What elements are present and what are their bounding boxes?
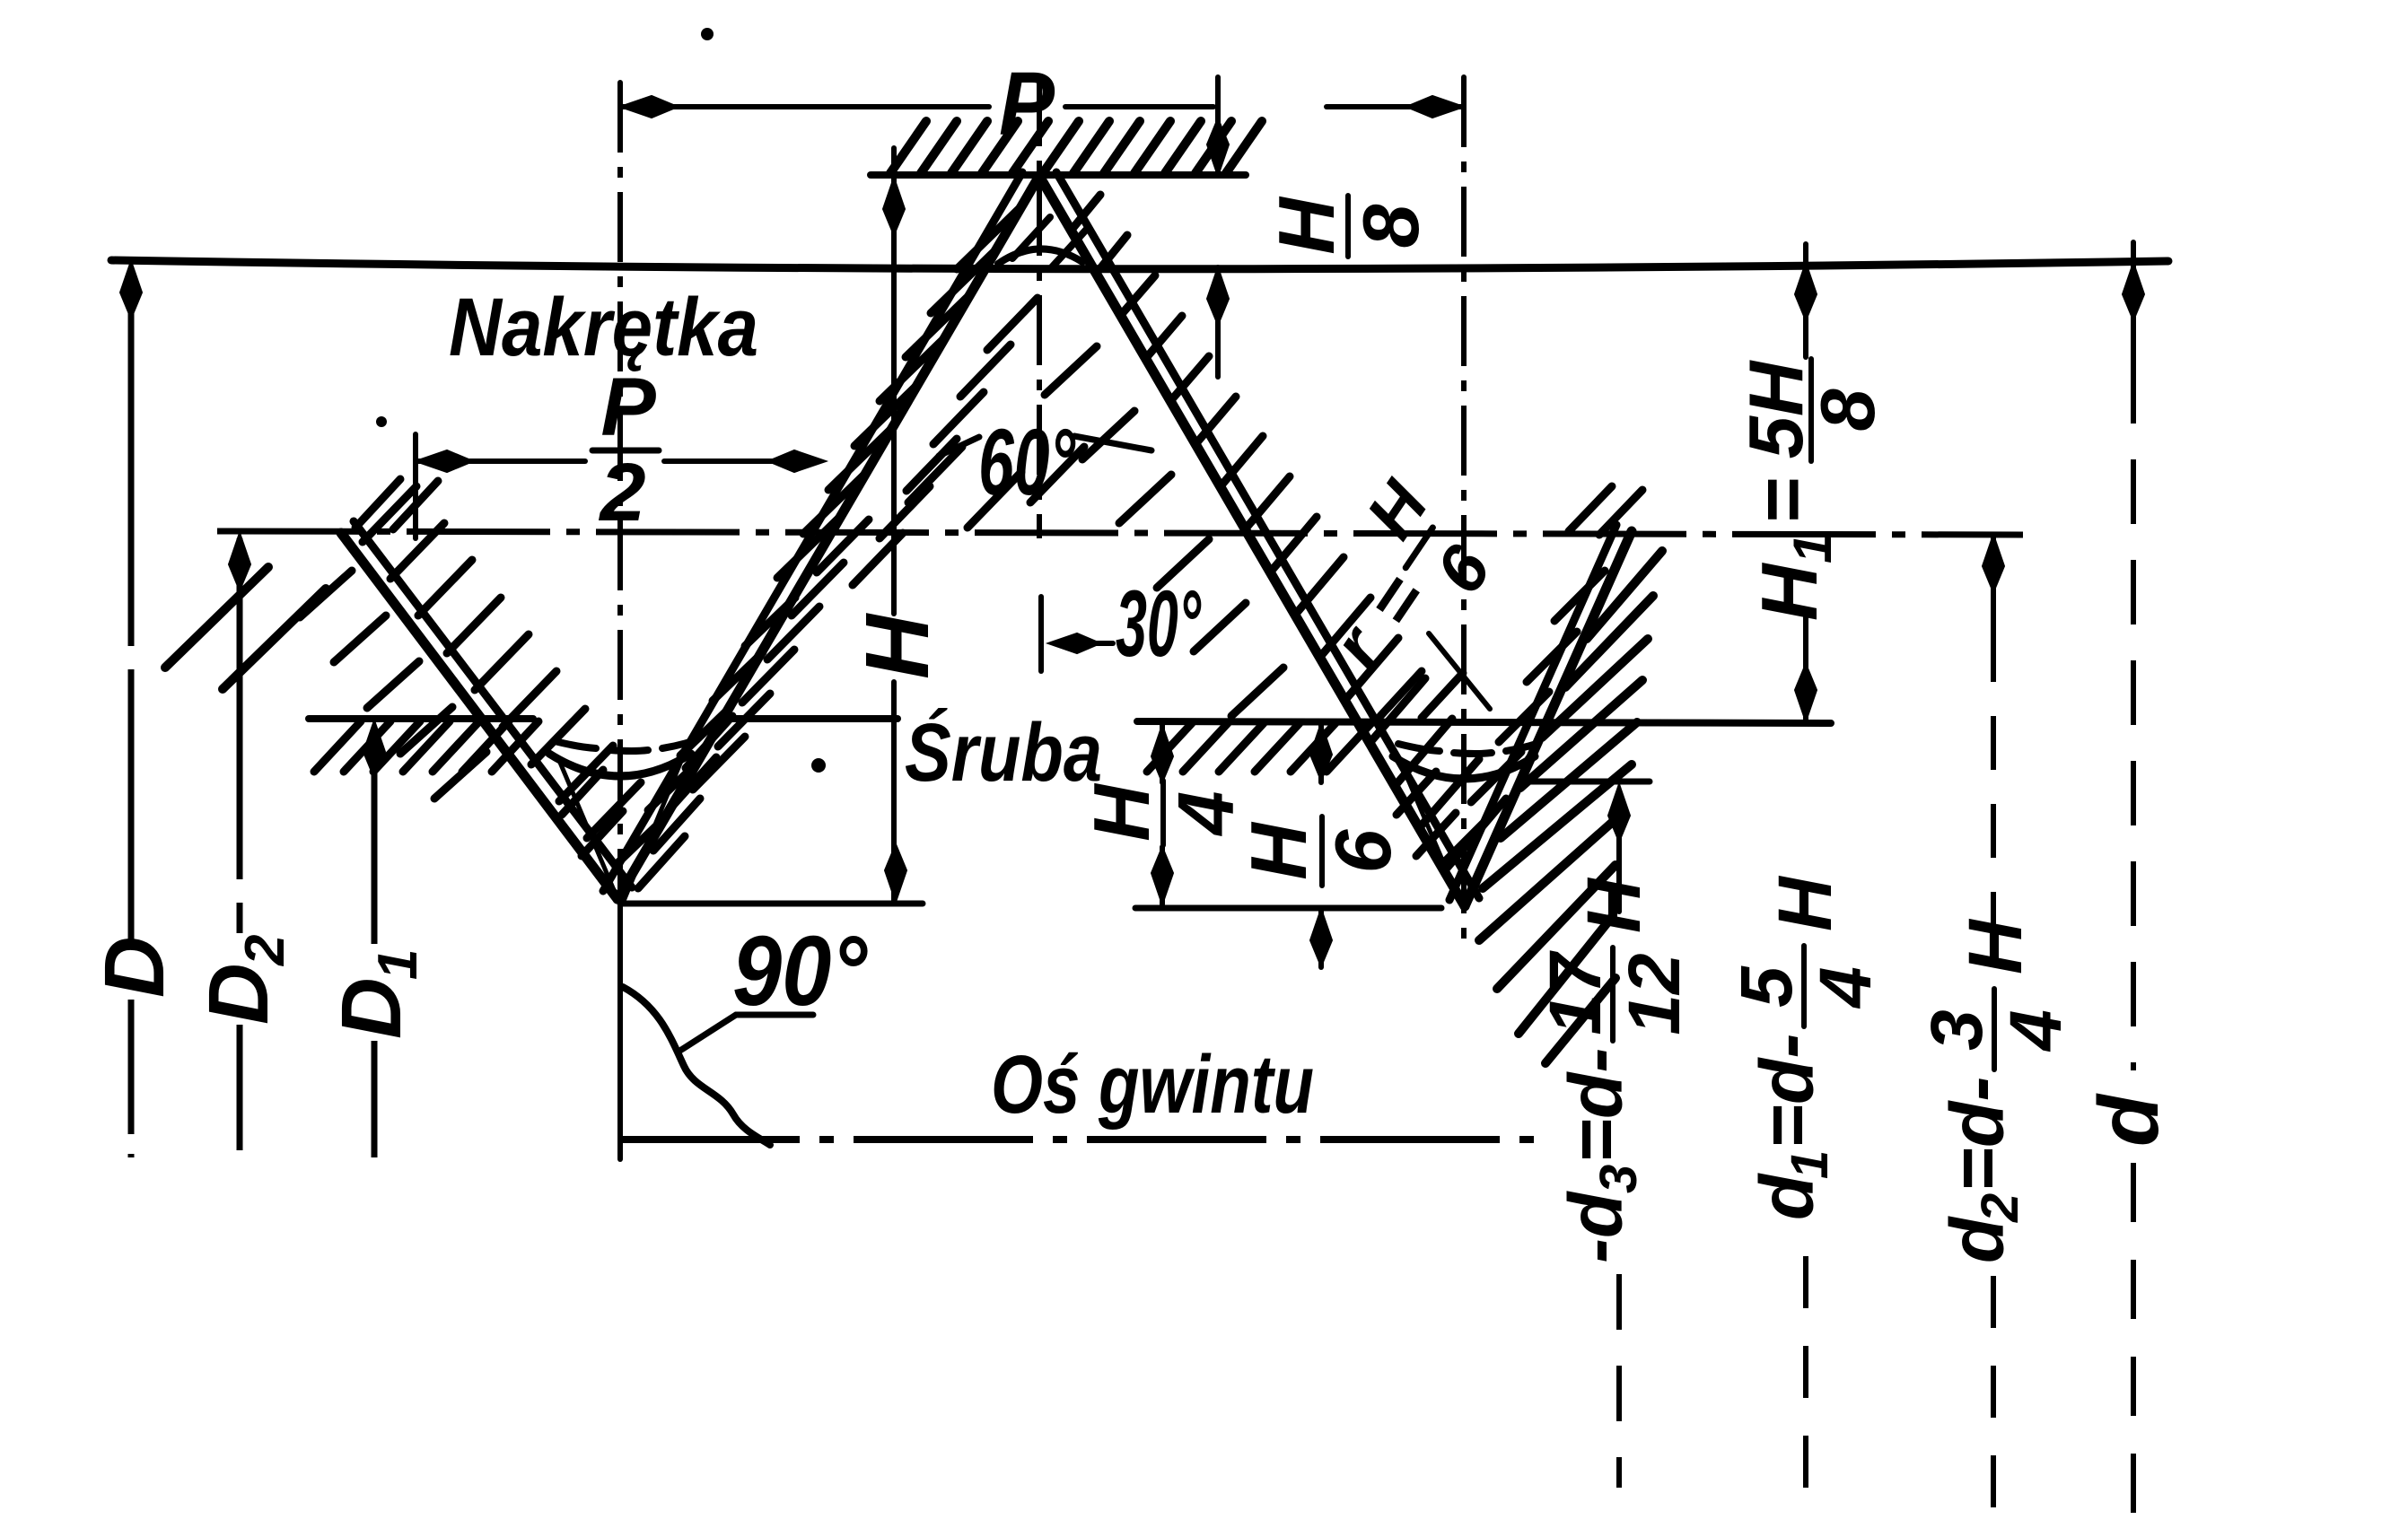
wire 60 leader right [1074,436,1151,450]
svg-text:=d-: =d- [1745,1034,1829,1148]
wire root flat line D1 mid [723,715,898,722]
svg-text:12: 12 [1614,953,1695,1035]
svg-text:D: D [191,963,286,1025]
wire d3 lower dashed line [1616,1274,1622,1488]
svg-text:Oś gwintu: Oś gwintu [991,1039,1314,1131]
wire d3 level line right [1519,779,1650,785]
node speck below H label [811,758,826,773]
svg-text:5: 5 [1726,965,1808,1008]
wire H/6 lower shaft [1318,909,1324,967]
svg-text:2: 2 [1971,1193,2029,1223]
wire d2 upper shaft [1991,535,1996,628]
svg-text:1: 1 [1782,534,1843,563]
wire D2 dimension line [237,538,243,933]
node d2 arrow up [1983,535,2004,592]
wire P/2 dimension line [416,458,585,464]
wire H dimension line [891,148,897,614]
wire peak right flank nut-side line [1056,172,1479,898]
svg-text:H: H [1953,918,2037,974]
wire P/2 extension line [413,434,418,538]
node H/6 lower arrow up [1310,909,1332,966]
wire left sharp V right line [624,755,684,901]
wire root flat line d1 right [1137,721,1831,723]
wire peak left flank nut-side line [603,172,1022,891]
svg-text:2: 2 [598,447,645,538]
wire right groove right flank nut-side line [1449,525,1616,900]
wire right sharp V left line [1400,761,1462,906]
svg-text:90°: 90° [732,916,868,1026]
label d [2081,1093,2176,1147]
nut hatch above peak left flank [777,206,1021,578]
node D2 arrow up [229,533,250,590]
wire right root rounded arc r [1393,756,1535,779]
svg-text:=: = [1738,478,1826,524]
wire d lower dashed line [2131,1163,2136,1516]
label H/6 [1234,817,1407,886]
svg-text:2: 2 [234,935,296,966]
node D1 arrow up [363,720,385,778]
node speck top [701,28,714,40]
label D1 [324,949,429,1039]
nut hatch inside right groove right flank [1443,571,1605,863]
svg-text:H: H [847,613,948,679]
node H/4 arrow up [1151,725,1173,782]
screw hatch below right root flat [1147,723,1371,772]
node left groove centerline [617,83,623,897]
node H/8 arrow down [1207,118,1229,176]
screw hatch left vertex right side [638,716,732,888]
wire H1 upper shaft [1803,244,1808,357]
wire left groove left flank nut-side line [354,521,632,887]
wire H/8 dimension line upper [1215,77,1221,176]
svg-text:Nakrętka: Nakrętka [449,282,758,373]
svg-text:17: 17 [1535,950,1616,1035]
wire peak left flank [617,176,1039,899]
screw hatch right vertex left side [1397,772,1456,856]
screw hatch left vertex left side [562,770,623,856]
wire d2 mid dashed line [1991,628,1996,933]
screw hatch below left root flat [314,721,539,772]
svg-text:8: 8 [1806,389,1891,432]
wire H1 lower shaft [1803,610,1808,723]
wire left centerline solid lower part [617,897,623,1159]
wire 90 leader [679,1015,813,1052]
wire major diameter line d=D [111,260,2168,269]
wire H/6 upper shaft [1318,723,1324,782]
screw hatch inside peak left flank lower [693,520,869,790]
wire left groove left flank (screw/nut contact) [341,533,617,899]
nut hatch above peak right flank [1072,195,1506,870]
wire left root dashed arc [555,741,693,751]
wire P left extension tick [617,83,623,135]
node right groove centerline [1461,77,1467,951]
svg-text:D: D [324,977,419,1039]
label P/2 fraction bar [592,448,659,454]
node P/2 arrow left [416,450,473,472]
node H1 arrow down [1795,664,1817,721]
wire right sharp V right line [1467,757,1528,906]
node P arrow right [1406,96,1464,118]
svg-text:=d-: =d- [1935,1077,2019,1192]
node H/4 arrow down [1151,847,1173,904]
label H/8 [1262,196,1435,257]
svg-text:d: d [2081,1093,2176,1147]
wire right root dashed arc [1398,744,1537,754]
svg-text:8: 8 [1346,204,1435,248]
label H [847,613,948,679]
node H arrow down [885,844,906,902]
wire d2 lower dashed line [1991,1276,1996,1525]
svg-text:6: 6 [1318,828,1407,873]
wire D dimension line [128,269,135,942]
label d3=d-17/12H [1535,877,1695,1263]
svg-text:30°: 30° [1116,572,1202,677]
node d arrow up [2123,263,2144,320]
wire crest flat line (sharp apex level) [871,171,1246,179]
svg-text:4: 4 [1805,966,1887,1009]
svg-text:Śruba: Śruba [905,707,1102,799]
svg-text:60°: 60° [978,410,1076,515]
wire r leader [1429,633,1490,709]
svg-text:H: H [1572,877,1656,933]
svg-text:H: H [1763,875,1847,931]
wire d1 lower dashed line [1803,1256,1808,1521]
label H/4 [1077,781,1250,845]
label r=H/6 [1282,467,1517,705]
svg-text:H: H [1234,821,1323,880]
wire pitch diameter line d2=D2 (dash-dot) [217,531,2023,535]
svg-text:4: 4 [1995,1009,2077,1052]
svg-text:P: P [600,362,656,453]
label D2 [191,935,296,1025]
wire D1 dimension line [372,727,378,944]
node 30 arrow [1048,633,1100,653]
wire P right extension line [1461,77,1467,144]
screw hatch inside peak right flank [1045,346,1283,716]
label H1=5H/8 [1734,359,1891,621]
node H1 arrow up [1795,263,1817,320]
screw hatch fan below right groove right flank [1479,551,1662,1063]
node d3 arrow up [1608,784,1630,842]
node H/6 arrow up [1310,723,1332,781]
screw hatch inside apex [1012,217,1088,269]
svg-text:P: P [999,54,1055,154]
wire H/4 lower shaft [1160,847,1165,904]
nut hatch inside left groove left flank [363,486,641,838]
label d2=d-3/4H [1916,918,2077,1263]
node P arrow left [620,96,678,118]
label D [87,936,182,998]
svg-text:=d-: =d- [1554,1048,1638,1163]
screw hatch inside peak left flank [853,298,1038,585]
wire d3 upper shaft [1616,799,1622,912]
node D arrow up [120,261,142,319]
wire root flat line D1 left [309,715,533,722]
wire P dimension line [620,104,989,109]
svg-text:H: H [1262,196,1351,255]
svg-text:-d: -d [1554,1191,1638,1263]
wire right groove right flank [1465,531,1632,906]
node speck near P/2 [376,416,387,427]
node H arrow up [883,178,905,235]
wire H/8 dimension line lower [1215,267,1221,377]
screw hatch strays left of groove [165,567,326,689]
svg-text:1: 1 [1781,1150,1839,1179]
wire sharp-root extension line left [620,901,923,907]
wire left sharp V left line [558,758,618,901]
nut hatch above pitch near right flank top [1569,486,1642,535]
svg-text:H: H [1745,562,1834,621]
wire d upper shaft [2131,242,2136,359]
nut hatch above crest flat [890,121,1262,173]
wire sharp-root extension line right [1135,905,1441,912]
wire thread axis (dash-dot) [620,1136,1537,1143]
wire left root rounded arc r [549,754,691,776]
wire peak right flank [1039,176,1465,906]
svg-text:3: 3 [1916,1009,1998,1051]
svg-text:D: D [87,936,182,998]
node H/8 arrow up [1207,267,1229,325]
svg-text:1: 1 [367,949,429,980]
node peak centerline [1037,76,1042,538]
screw hatch outside left groove left flank [300,571,486,799]
wire 60 leader left [939,437,979,456]
svg-text:3: 3 [1589,1165,1648,1193]
wire d mid dashed line [2131,359,2136,1070]
nut hatch right groove above root flat [1380,671,1463,718]
screw hatch inside peak middle [908,447,1084,528]
wire 60 angle arc [998,249,1082,264]
label d1=d-5/4H [1726,875,1887,1220]
nut hatch left V along right flank inner side [616,598,795,865]
wire freehand break line [623,987,770,1145]
wire 30 arrow line [1073,641,1113,646]
wire H/4 upper shaft [1160,725,1165,782]
wire peak centerline tick below pitch [1038,597,1044,671]
node P/2 arrow right [768,450,826,472]
nut hatch spillover above pitch at left flank top [355,479,438,529]
